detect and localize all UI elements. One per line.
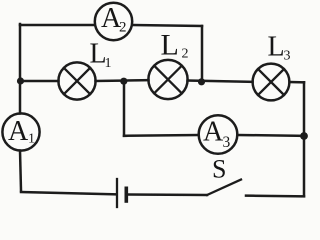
svg-text:1: 1 [28, 132, 35, 147]
svg-text:A: A [203, 117, 224, 148]
svg-text:2: 2 [182, 47, 189, 62]
svg-text:1: 1 [105, 56, 112, 71]
svg-text:L: L [161, 29, 179, 62]
svg-text:S: S [212, 155, 226, 184]
svg-text:L: L [268, 32, 285, 63]
svg-text:3: 3 [223, 134, 231, 151]
svg-text:3: 3 [284, 49, 291, 64]
svg-text:A: A [8, 116, 29, 147]
svg-text:2: 2 [119, 20, 127, 36]
